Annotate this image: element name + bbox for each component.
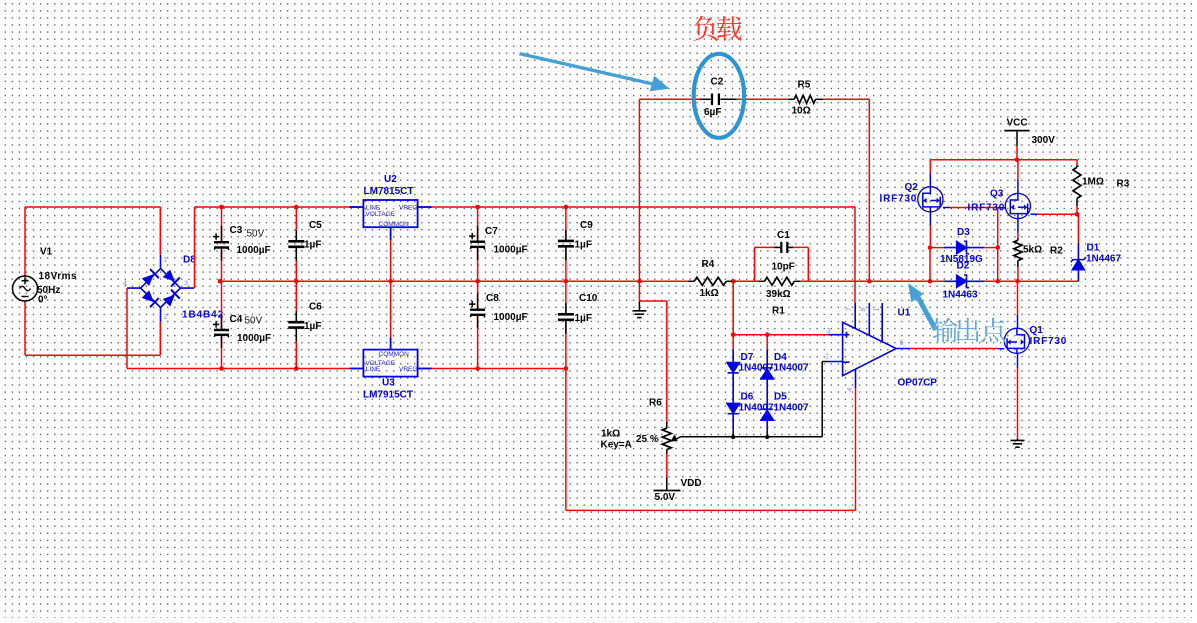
svg-text:R2: R2 <box>1050 246 1063 257</box>
wire: Q2 gate to Q3 gate <box>943 207 950 209</box>
svg-text:VDD: VDD <box>681 478 702 489</box>
junction C10 -rail <box>564 366 569 371</box>
svg-text:0°: 0° <box>38 295 48 306</box>
diode D6 1N4007 <box>727 403 739 413</box>
annotation ellipse around C2 <box>694 54 744 138</box>
svg-text:1N4007: 1N4007 <box>774 363 809 374</box>
capacitor C6 1uF <box>295 281 297 321</box>
wire: C10 column down to opamp V- loop <box>565 369 567 511</box>
diode D3 1N5819G <box>930 247 944 249</box>
wire: V1 top lead <box>24 207 26 276</box>
svg-text:R3: R3 <box>1117 179 1130 190</box>
svg-text:U1: U1 <box>898 308 911 319</box>
wire: load loop top left <box>639 98 699 100</box>
annotation text shuchudian (output point) <box>932 318 957 343</box>
junction C8 -rail <box>475 366 480 371</box>
resistor R5 10ohm <box>788 98 794 100</box>
svg-text:1: 1 <box>164 257 168 264</box>
wire: -15 rail U3 to C10 column <box>418 368 566 370</box>
svg-text:U2: U2 <box>384 174 397 185</box>
svg-text:OP07CP: OP07CP <box>898 378 938 389</box>
svg-text:1kΩ: 1kΩ <box>700 288 719 299</box>
capacitor C7 1000uF <box>477 207 479 241</box>
svg-text:COMMON: COMMON <box>379 351 410 358</box>
wire: opamp output <box>910 348 998 350</box>
svg-text:1µF: 1µF <box>575 240 592 251</box>
svg-text:50V: 50V <box>247 229 265 240</box>
svg-text:C4: C4 <box>230 314 243 325</box>
wire: 0V middle rail <box>220 280 688 282</box>
wire: bridge pin4 down to -rail <box>126 288 128 368</box>
transistor Q1 IRF730 (mirrored) <box>1017 315 1019 328</box>
svg-text:1MΩ: 1MΩ <box>1082 177 1104 188</box>
svg-text:1µF: 1µF <box>575 313 592 324</box>
potentiometer R6 1k <box>666 422 668 428</box>
wire: diode bottoms to wiper line (black) <box>732 431 734 437</box>
svg-text:25 %: 25 % <box>636 434 659 445</box>
capacitor C8 1000uF <box>477 281 479 309</box>
wire: D3 cathode node down to 0V rail <box>997 248 999 282</box>
VCC power symbol 300V <box>1004 130 1029 132</box>
junction Q2 source 0V rail <box>928 279 933 284</box>
svg-text:Key=A: Key=A <box>601 440 632 451</box>
junction C4 -rail <box>219 366 224 371</box>
junction D5 column bottom <box>765 435 769 439</box>
capacitor C9 1uF <box>565 207 567 240</box>
wire: Q2 source down to D3 row <box>929 212 931 225</box>
capacitor C1 10pF loop <box>754 247 756 281</box>
diode D7 1N4007 <box>727 350 739 431</box>
wire: ground tee to R6 column <box>639 300 666 302</box>
svg-text:D6: D6 <box>741 392 754 403</box>
wire: node R4/R1 down to diode rail <box>732 281 734 334</box>
svg-text:C7: C7 <box>485 226 498 237</box>
svg-text:1N4007: 1N4007 <box>739 403 774 414</box>
svg-text:D3: D3 <box>957 227 970 238</box>
svg-text:4: 4 <box>847 388 854 392</box>
svg-text:D4: D4 <box>774 352 787 363</box>
junction C5 0V rail <box>294 279 299 284</box>
svg-text:1N4467: 1N4467 <box>1086 254 1121 265</box>
junction R2 0V rail <box>1015 279 1020 284</box>
svg-text:1000µF: 1000µF <box>237 333 271 344</box>
capacitor C4 1000uF <box>221 281 223 329</box>
wire: Q3 drain up to rail <box>1017 160 1019 180</box>
wire: opamp pin4 down <box>855 388 857 510</box>
svg-text:1000µF: 1000µF <box>494 312 528 323</box>
svg-text:Q2: Q2 <box>905 182 919 193</box>
wire: D7 column top <box>732 335 734 350</box>
svg-text:R1: R1 <box>772 306 785 317</box>
svg-text:C1: C1 <box>777 230 790 241</box>
capacitor C2 6uF <box>699 98 711 100</box>
annotation arrow to load <box>520 54 670 92</box>
transistor Q2 IRF730 <box>929 173 931 186</box>
svg-text:VOLTAGE: VOLTAGE <box>365 211 395 218</box>
svg-text:2: 2 <box>825 354 829 361</box>
svg-text:VREG: VREG <box>399 205 417 212</box>
junction C9 0V rail <box>564 279 569 284</box>
svg-text:C2: C2 <box>711 77 724 88</box>
ground symbol near C10 <box>638 301 640 310</box>
junction C6 -rail <box>294 366 299 371</box>
resistor R2 5kohm <box>1017 238 1019 240</box>
bridge rectifier D8 diamond <box>127 255 194 322</box>
wire: D4 column top <box>766 335 768 350</box>
svg-text:LM7915CT: LM7915CT <box>363 390 413 401</box>
diode D1 1N4467 zener <box>1077 214 1079 243</box>
svg-text:C10: C10 <box>579 293 598 304</box>
svg-text:1: 1 <box>874 308 881 312</box>
capacitor C10 1uF <box>565 281 567 314</box>
wire: 0V rail down to ground tee <box>638 281 640 301</box>
wire: rail down to Q2 drain <box>929 160 931 174</box>
wire: rail down to R3 <box>1076 160 1078 165</box>
svg-text:C5: C5 <box>309 220 322 231</box>
junction U2 common 0V rail <box>388 279 393 284</box>
svg-text:IRF730: IRF730 <box>880 194 918 205</box>
wire: VCC down to top rail <box>1016 146 1018 160</box>
svg-text:1000µF: 1000µF <box>494 245 528 256</box>
resistor R4 1kohm <box>688 280 694 282</box>
svg-text:1B4B42: 1B4B42 <box>182 310 224 321</box>
svg-text:R6: R6 <box>649 398 662 409</box>
junction C7 0V rail <box>475 279 480 284</box>
ground symbol below Q1 <box>1017 438 1019 440</box>
junction R4-R1 node <box>731 279 736 284</box>
svg-text:VCC: VCC <box>1007 118 1028 129</box>
junction D3 cathode <box>995 245 1000 250</box>
svg-text:D2: D2 <box>957 261 970 272</box>
svg-text:D7: D7 <box>741 352 754 363</box>
svg-text:C8: C8 <box>486 293 499 304</box>
svg-text:1N4007: 1N4007 <box>774 403 809 414</box>
svg-text:C6: C6 <box>309 302 322 313</box>
svg-text:D5: D5 <box>774 392 787 403</box>
bridge diode top-left <box>141 269 159 287</box>
svg-text:4: 4 <box>123 281 127 288</box>
svg-text:1kΩ: 1kΩ <box>601 429 620 440</box>
wire: +15 rail U2 to corner <box>418 206 855 208</box>
wire: load loop left vertical <box>638 99 640 281</box>
junction D6 column bottom <box>731 435 735 439</box>
svg-text:R5: R5 <box>798 80 811 91</box>
svg-text:1N4463: 1N4463 <box>943 290 978 301</box>
wire: bridge pin3 up to +rail <box>194 207 196 288</box>
svg-text:10Ω: 10Ω <box>792 106 811 117</box>
svg-text:LM7815CT: LM7815CT <box>364 186 414 197</box>
wire: 0V rail down to U3 COMMON <box>390 281 392 338</box>
svg-text:LINE: LINE <box>366 366 381 373</box>
svg-text:5.0V: 5.0V <box>655 492 676 503</box>
transistor Q3 IRF730 <box>1017 180 1019 193</box>
wire: wiper line to opamp pin2 <box>681 436 823 438</box>
svg-text:5kΩ: 5kΩ <box>1023 245 1042 256</box>
svg-text:C3: C3 <box>230 225 243 236</box>
svg-text:IRF730: IRF730 <box>968 203 1006 214</box>
junction R5 loop 0V rail <box>867 279 872 284</box>
junction D4 column top <box>765 332 770 337</box>
svg-text:8: 8 <box>861 308 868 312</box>
R6 wiper arrow <box>675 437 681 440</box>
svg-text:1N4007: 1N4007 <box>739 363 774 374</box>
junction R3 bottom node <box>1075 212 1080 217</box>
wire: Q3 right pin to R3 bottom node <box>1031 213 1038 215</box>
svg-text:3: 3 <box>827 328 831 335</box>
svg-text:10pF: 10pF <box>772 262 795 273</box>
resistor R1 39kohm <box>759 280 765 282</box>
wire: Q3 source down to R2 <box>1017 219 1019 233</box>
svg-text:Q1: Q1 <box>1030 325 1044 336</box>
voltage regulator U3 LM7915CT box <box>350 338 432 377</box>
wire: V1 bottom loop to bridge pin2 <box>24 301 26 355</box>
junction D7 column top <box>731 332 736 337</box>
junction C7 top rail <box>475 205 480 210</box>
svg-text:39kΩ: 39kΩ <box>766 289 791 300</box>
resistor R3 1Mohm <box>1076 165 1078 167</box>
annotation arrow to output point <box>908 283 935 329</box>
svg-text:18Vrms: 18Vrms <box>39 271 78 282</box>
wire: V1 top to bridge pin1 <box>25 206 160 208</box>
wire: Q1 gate stub <box>998 348 1004 350</box>
diode D5 1N4007 <box>761 409 773 420</box>
wire: U2 COMMON down to 0V rail <box>390 240 392 281</box>
junction load loop 0V rail <box>637 279 642 284</box>
junction C9 top rail <box>564 205 569 210</box>
voltage regulator U2 LM7815CT box <box>350 200 432 240</box>
wire: Q2 source column to D2 row <box>929 248 931 282</box>
wire: gate node down to D3 cathode <box>997 208 999 248</box>
svg-text:R4: R4 <box>702 259 715 270</box>
wire: C2 to R5 <box>737 98 788 100</box>
svg-text:6: 6 <box>900 340 904 347</box>
wire: HV top rail <box>930 159 1077 161</box>
junction C5 top rail <box>294 205 299 210</box>
svg-text:IRF730: IRF730 <box>1030 336 1068 347</box>
svg-text:1000µF: 1000µF <box>237 245 271 256</box>
svg-text:U3: U3 <box>382 378 395 389</box>
svg-text:300V: 300V <box>1032 135 1056 146</box>
svg-text:2: 2 <box>164 314 168 321</box>
svg-text:C9: C9 <box>580 220 593 231</box>
svg-text:Q3: Q3 <box>990 189 1004 200</box>
wire: Q1 source down to ground <box>1017 353 1019 368</box>
annotation text fuzai (load) <box>693 16 717 41</box>
diode D2 1N4463 (in 0V rail) <box>944 275 984 288</box>
AC source V1 <box>13 276 38 301</box>
svg-text:1µF: 1µF <box>304 240 321 251</box>
junction D3 anode <box>928 245 933 250</box>
svg-text:6µF: 6µF <box>704 107 721 118</box>
svg-text:7: 7 <box>847 308 854 312</box>
svg-text:V1: V1 <box>40 247 53 258</box>
bridge diode bottom-left <box>141 289 159 307</box>
wire: R2 column down to Q1 drain <box>1017 281 1019 315</box>
junction VCC rail <box>1015 158 1020 163</box>
op-amp U1 OP07CP <box>828 303 910 388</box>
capacitor C3 1000uF <box>221 207 223 242</box>
wire: +rail corner down to opamp pin7 <box>854 207 856 303</box>
junction D3 node 0V rail <box>995 279 1000 284</box>
bridge diode bottom-right <box>162 290 180 308</box>
svg-text:3: 3 <box>184 281 188 288</box>
svg-text:1µF: 1µF <box>304 321 321 332</box>
wire: R5 to loop right corner down to 0V rail <box>823 98 869 100</box>
junction C3 top rail <box>219 205 224 210</box>
capacitor C5 1uF <box>295 207 297 241</box>
svg-text:VREG: VREG <box>399 366 417 373</box>
diode D4 1N4007 <box>761 349 773 431</box>
junction C3 0V rail <box>218 279 223 284</box>
bridge diode top-right <box>162 269 180 287</box>
VDD power symbol 5.0V <box>654 490 681 492</box>
wire: diode top rail to opamp pin3 <box>733 334 828 336</box>
svg-text:50V: 50V <box>245 316 263 327</box>
svg-text:D1: D1 <box>1087 243 1100 254</box>
svg-text:COMMON: COMMON <box>379 221 410 228</box>
